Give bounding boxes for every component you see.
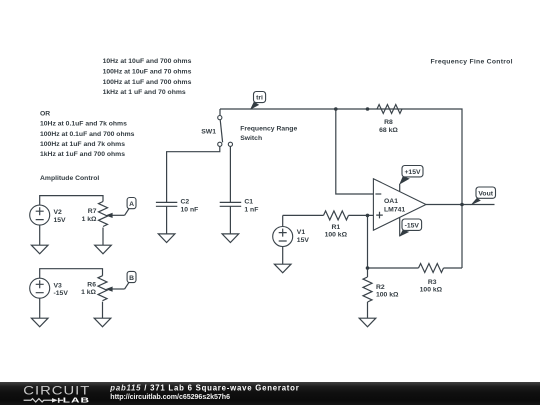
svg-text:+15V: +15V: [404, 169, 421, 176]
svg-text:R2: R2: [376, 284, 385, 291]
svg-text:http://circuitlab.com/c65296s2: http://circuitlab.com/c65296s2k57h6: [110, 393, 230, 401]
svg-text:10 nF: 10 nF: [181, 206, 199, 213]
svg-text:68 kΩ: 68 kΩ: [379, 127, 398, 134]
svg-text:100Hz at 1uF and 700 ohms: 100Hz at 1uF and 700 ohms: [103, 79, 192, 86]
svg-text:1 kΩ: 1 kΩ: [82, 216, 97, 223]
svg-text:100Hz at 0.1uF and 700 ohms: 100Hz at 0.1uF and 700 ohms: [40, 131, 135, 138]
svg-text:10Hz at 10uF and 700 ohms: 10Hz at 10uF and 700 ohms: [103, 58, 192, 65]
svg-text:Vout: Vout: [478, 190, 493, 197]
svg-text:tri: tri: [256, 95, 263, 102]
svg-text:100 kΩ: 100 kΩ: [420, 287, 443, 294]
svg-text:R6: R6: [87, 281, 96, 288]
svg-text:15V: 15V: [54, 217, 67, 224]
svg-text:Frequency Fine Control: Frequency Fine Control: [431, 58, 513, 65]
svg-text:pab115 / 371 Lab 6 Square-wave: pab115 / 371 Lab 6 Square-wave Generator: [109, 383, 299, 392]
svg-text:Switch: Switch: [240, 135, 262, 142]
svg-text:OA1: OA1: [384, 198, 398, 205]
svg-text:100Hz at 1uF and 7k ohms: 100Hz at 1uF and 7k ohms: [40, 141, 125, 148]
svg-text:100 kΩ: 100 kΩ: [376, 292, 399, 299]
svg-text:Frequency Range: Frequency Range: [240, 126, 297, 133]
svg-text:LM741: LM741: [384, 207, 405, 214]
svg-text:100 kΩ: 100 kΩ: [325, 232, 348, 239]
svg-text:V2: V2: [54, 209, 63, 216]
svg-text:1 kΩ: 1 kΩ: [81, 289, 96, 296]
svg-text:-15V: -15V: [54, 290, 69, 297]
svg-text:100Hz at 10uF and 70 ohms: 100Hz at 10uF and 70 ohms: [103, 68, 192, 75]
svg-text:-15V: -15V: [405, 222, 420, 229]
svg-text:LAB: LAB: [63, 396, 90, 404]
svg-text:CIRCUIT: CIRCUIT: [23, 384, 90, 397]
svg-text:Amplitude Control: Amplitude Control: [40, 175, 99, 182]
svg-text:SW1: SW1: [201, 128, 216, 135]
svg-text:R8: R8: [384, 119, 393, 126]
svg-text:1 nF: 1 nF: [244, 206, 258, 213]
svg-text:10Hz at 0.1uF and 7k ohms: 10Hz at 0.1uF and 7k ohms: [40, 121, 127, 128]
svg-text:R3: R3: [428, 279, 437, 286]
svg-text:V1: V1: [297, 229, 306, 236]
svg-text:1kHz at 1uF and 700 ohms: 1kHz at 1uF and 700 ohms: [40, 151, 125, 158]
svg-text:C2: C2: [181, 199, 190, 206]
svg-text:1kHz at 1 uF and 70 ohms: 1kHz at 1 uF and 70 ohms: [103, 89, 186, 96]
svg-text:R1: R1: [331, 224, 340, 231]
svg-text:B: B: [129, 275, 134, 282]
svg-text:R7: R7: [88, 208, 97, 215]
svg-text:A: A: [129, 201, 134, 208]
svg-text:OR: OR: [40, 111, 50, 118]
svg-text:V3: V3: [54, 282, 63, 289]
svg-text:15V: 15V: [297, 237, 310, 244]
svg-text:C1: C1: [244, 199, 253, 206]
